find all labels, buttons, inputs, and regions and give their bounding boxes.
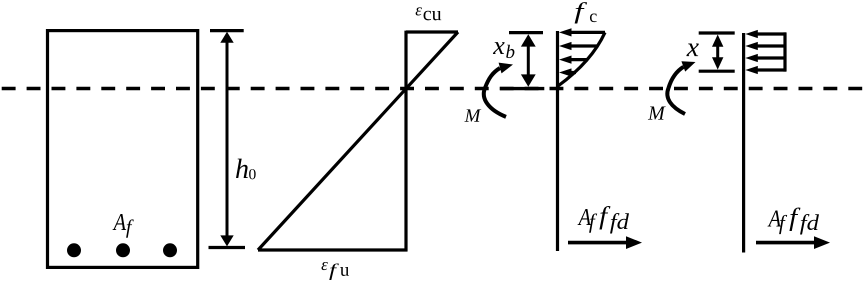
rect block arrow 1 [757, 32, 786, 35]
svg-text:h: h [235, 154, 249, 185]
force arrow section 3 [568, 241, 628, 245]
x_b dimension bottom tick [500, 87, 544, 90]
rect block arrow 2 [757, 44, 786, 47]
rebar dot 2 [116, 243, 130, 257]
svg-text:ε: ε [321, 255, 328, 274]
h0 dimension line [226, 40, 229, 238]
h0 dimension bottom tick [209, 246, 246, 249]
strain diagram bottom edge [258, 248, 408, 251]
strain diagram diagonal [258, 32, 458, 250]
rebar dot 3 [163, 243, 177, 257]
svg-text:A: A [112, 208, 127, 235]
moment arrow M (curved) section 3 [484, 68, 506, 117]
stress arrow 1 [571, 31, 605, 34]
svg-text:fd: fd [610, 210, 630, 234]
neutral axis dashed line [2, 87, 863, 90]
x_b dimension line [527, 44, 530, 76]
beam outline [48, 31, 198, 268]
strain diagram top edge [406, 30, 458, 33]
svg-text:ε: ε [415, 0, 422, 19]
strain diagram axis [404, 31, 407, 252]
svg-text:cu: cu [423, 3, 442, 25]
stress arrow 4 [571, 71, 576, 74]
force arrow section 4 [756, 241, 816, 245]
svg-text:b: b [505, 42, 515, 63]
rect block arrow 3 [757, 56, 786, 59]
stress arrow 2 [571, 44, 597, 47]
svg-text:x: x [686, 31, 699, 62]
x dimension top tick [699, 31, 735, 34]
x_b dimension top tick [509, 31, 543, 34]
stress axis (curved block) [556, 31, 559, 251]
h0 dimension top tick [210, 29, 244, 32]
rebar dot 1 [67, 243, 81, 257]
svg-text:x: x [492, 31, 505, 60]
svg-text:u: u [340, 260, 350, 281]
svg-text:M: M [464, 106, 482, 127]
parabolic stress curve [558, 32, 605, 86]
svg-text:c: c [589, 6, 597, 26]
moment arrow M (curved) section 4 [667, 67, 685, 114]
rect block arrow 4 [757, 68, 786, 71]
x dimension line [716, 44, 719, 60]
x dimension bottom tick [699, 70, 735, 73]
svg-text:0: 0 [248, 166, 256, 183]
svg-text:fd: fd [800, 211, 820, 235]
stress arrow 3 [571, 58, 588, 61]
stress axis (rect block) [742, 33, 745, 253]
svg-text:M: M [647, 103, 666, 125]
rect block right edge [783, 32, 786, 71]
